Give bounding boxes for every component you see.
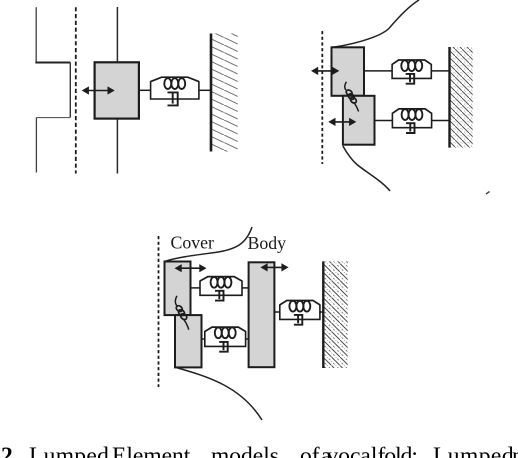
glottal midline profile (left duct wall) [35,7,37,62]
vocal fold upper contour curve [165,227,253,262]
cover spring k2 / damper r2 box [205,331,246,346]
wire: cover m1 to spring-damper 1 [191,287,201,289]
fixed lateral wall, hatched with dots [324,261,348,368]
spring k2 / damper r2 spring coil [392,109,431,113]
vocal fold upper contour curve [333,0,419,47]
wire: spring-damper 2 to body [246,338,249,340]
spring k2 / damper r2 damper (dashpot) [406,123,415,133]
body mass [249,262,275,367]
displacement arrow x1 [316,70,334,72]
wire: spring-damper 1 to wall [431,70,450,72]
cover spring k1 / damper r1 damper (dashpot) [215,291,224,301]
svg-text:2.LumpedElementmodelsofavocalf: 2.LumpedElementmodelsofavocalfold:Lumped… [1,443,518,458]
wire: spring-damper 3 to wall [320,311,324,313]
coupling spring kc between m1 and m2 [345,82,359,112]
body spring kb / damper rb damper (dashpot) [294,315,302,325]
wire: spring-damper 1 to body [242,287,249,289]
spring k1 / damper r1 damper (dashpot) [406,74,415,84]
wire: mass to spring-damper [139,89,151,91]
small stray mark [486,192,490,195]
vertical guide line through mass m [116,7,118,174]
body spring kb / damper rb box [280,304,320,319]
displacement arrow (cover) [180,267,202,269]
cover spring k2 / damper r2 spring coil [205,327,246,331]
mass m1 (upper) [332,47,365,96]
displacement arrow x [87,90,110,92]
spring k1 / damper r1 spring coil [392,60,431,64]
mass m2 (lower) [343,96,375,145]
mass m (single-mass model) [95,62,139,118]
cover spring k2 / damper r2 damper (dashpot) [219,342,228,352]
coupling spring kc between cover masses [175,296,188,330]
fixed lateral wall, hatched [450,47,473,148]
vocal fold lower contour curve [176,368,262,421]
cover mass m1 (upper) [165,262,191,316]
vocal fold lower contour curve [343,146,390,191]
displacement arrow (body) [265,266,283,268]
dashed glottal midline [321,31,323,164]
cover spring k1 / damper r1 spring coil [200,277,242,281]
spring k / damper r damper (dashpot) [168,92,178,105]
wire: m2 to spring-damper 2 [375,120,393,122]
wire: m1 to spring-damper 1 [364,70,392,72]
spring k1 / damper r1 box [392,64,431,79]
wire: body to spring-damper 3 [274,311,279,313]
cover mass m2 (lower) [175,315,202,367]
cover spring k1 / damper r1 box [200,281,242,296]
displacement arrow x2 [333,121,351,123]
spring k / damper r box [151,81,199,99]
dashed midline axis [75,7,77,173]
wire: spring-damper to wall [199,89,212,91]
body spring kb / damper rb spring coil [280,301,320,305]
svg-text:Body: Body [248,233,287,253]
svg-text:Cover: Cover [171,233,215,253]
spring k2 / damper r2 box [392,113,431,128]
dashed glottal midline [158,236,160,387]
spring k / damper r spring coil [151,77,199,81]
wire: cover m2 to spring-damper 2 [202,338,205,340]
wire: spring-damper 2 to wall [432,120,450,122]
fixed wall (lateral support), hatched [212,34,238,152]
